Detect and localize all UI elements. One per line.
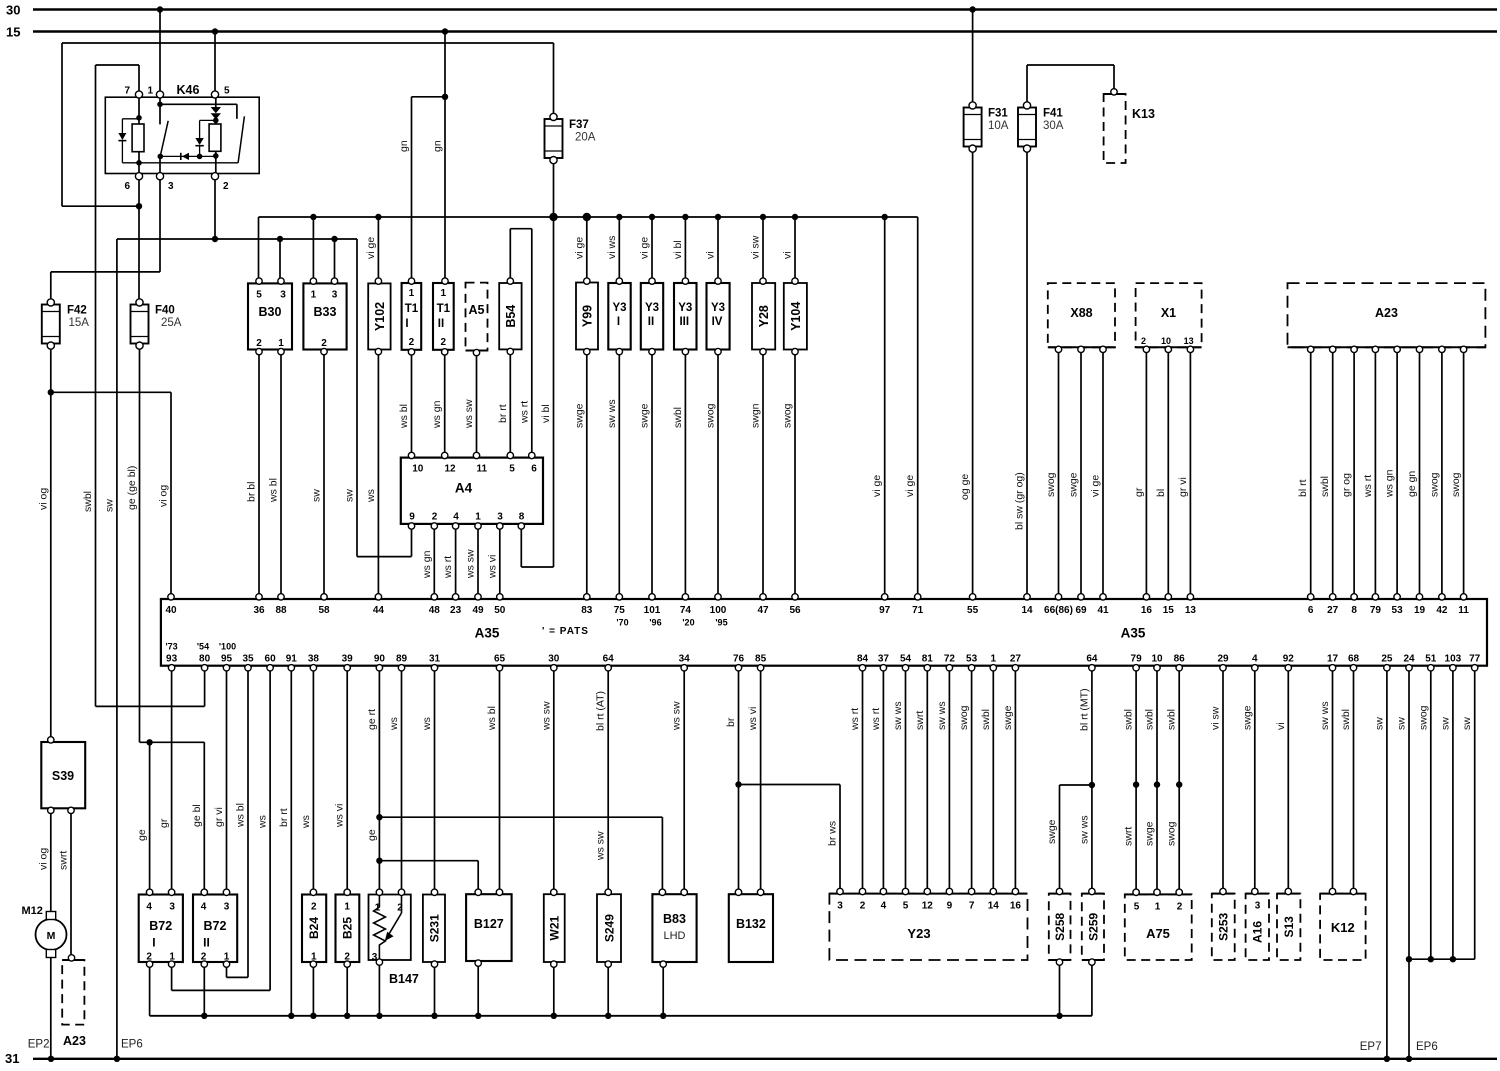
svg-text:bl rt (AT): bl rt (AT) bbox=[595, 691, 607, 731]
svg-text:vi ge: vi ge bbox=[904, 475, 916, 497]
svg-text:64: 64 bbox=[603, 654, 615, 665]
svg-text:15: 15 bbox=[1163, 605, 1175, 616]
svg-text:ge bl: ge bl bbox=[191, 804, 203, 827]
svg-text:swbl: swbl bbox=[1166, 709, 1178, 730]
svg-text:vi og: vi og bbox=[158, 485, 170, 507]
svg-text:swog: swog bbox=[1428, 472, 1440, 497]
svg-text:4: 4 bbox=[453, 512, 459, 523]
svg-text:95: 95 bbox=[221, 654, 233, 665]
svg-text:ge: ge bbox=[366, 829, 378, 841]
svg-text:F37: F37 bbox=[569, 119, 589, 131]
svg-text:swge: swge bbox=[1144, 821, 1156, 846]
svg-text:A4: A4 bbox=[455, 481, 473, 496]
svg-text:bl: bl bbox=[1155, 489, 1167, 497]
svg-text:'54: '54 bbox=[197, 642, 209, 652]
svg-text:6: 6 bbox=[1308, 605, 1314, 616]
svg-text:47: 47 bbox=[757, 605, 769, 616]
svg-text:72: 72 bbox=[944, 654, 956, 665]
svg-text:B54: B54 bbox=[504, 305, 518, 328]
svg-text:85: 85 bbox=[755, 654, 767, 665]
svg-text:K12: K12 bbox=[1331, 920, 1355, 935]
svg-text:2: 2 bbox=[256, 338, 262, 349]
svg-text:10: 10 bbox=[1151, 654, 1163, 665]
svg-text:gr og: gr og bbox=[1341, 473, 1353, 497]
svg-text:37: 37 bbox=[878, 654, 890, 665]
svg-text:X88: X88 bbox=[1070, 306, 1092, 320]
svg-text:B132: B132 bbox=[736, 917, 766, 931]
svg-text:2: 2 bbox=[860, 901, 866, 912]
svg-text:2: 2 bbox=[1177, 902, 1183, 913]
svg-text:vi ws: vi ws bbox=[606, 236, 618, 259]
svg-text:9: 9 bbox=[409, 512, 415, 523]
svg-text:15: 15 bbox=[6, 25, 20, 40]
svg-text:ws sw: ws sw bbox=[671, 701, 683, 731]
svg-text:50: 50 bbox=[494, 605, 506, 616]
svg-text:1: 1 bbox=[409, 288, 415, 299]
svg-text:EP6: EP6 bbox=[121, 1039, 143, 1051]
svg-text:vi: vi bbox=[705, 251, 717, 259]
svg-text:ws bl: ws bl bbox=[398, 404, 410, 429]
svg-text:3: 3 bbox=[837, 901, 843, 912]
svg-text:A35: A35 bbox=[1121, 626, 1146, 641]
svg-text:3: 3 bbox=[497, 512, 503, 523]
svg-text:swbl: swbl bbox=[672, 407, 684, 428]
svg-text:B72: B72 bbox=[204, 919, 227, 933]
svg-text:'73: '73 bbox=[166, 642, 178, 652]
svg-text:3: 3 bbox=[169, 902, 175, 913]
svg-text:B127: B127 bbox=[474, 917, 504, 931]
svg-text:br: br bbox=[725, 717, 737, 727]
svg-text:II: II bbox=[203, 936, 210, 950]
svg-text:40: 40 bbox=[165, 605, 177, 616]
svg-text:S249: S249 bbox=[602, 914, 616, 942]
svg-text:ws bl: ws bl bbox=[235, 803, 247, 828]
svg-text:1: 1 bbox=[1155, 902, 1161, 913]
svg-text:2: 2 bbox=[223, 181, 229, 192]
svg-text:91: 91 bbox=[286, 654, 298, 665]
svg-text:1: 1 bbox=[311, 290, 317, 301]
svg-text:77: 77 bbox=[1469, 654, 1481, 665]
svg-text:S253: S253 bbox=[1217, 912, 1231, 940]
svg-text:71: 71 bbox=[912, 605, 924, 616]
svg-text:13: 13 bbox=[1184, 336, 1194, 346]
svg-text:K13: K13 bbox=[1132, 107, 1155, 121]
svg-text:B33: B33 bbox=[314, 305, 337, 319]
svg-text:B72: B72 bbox=[149, 919, 172, 933]
svg-text:vi bl: vi bl bbox=[672, 240, 684, 259]
svg-text:Y104: Y104 bbox=[789, 302, 803, 331]
svg-text:41: 41 bbox=[1097, 605, 1109, 616]
svg-text:swge: swge bbox=[639, 403, 651, 428]
svg-text:swog: swog bbox=[1417, 705, 1429, 730]
svg-text:2: 2 bbox=[432, 512, 438, 523]
svg-text:75: 75 bbox=[614, 605, 626, 616]
svg-text:10: 10 bbox=[412, 464, 424, 475]
svg-text:swrt: swrt bbox=[914, 711, 926, 730]
svg-text:101: 101 bbox=[644, 605, 661, 616]
svg-text:5: 5 bbox=[509, 464, 515, 475]
svg-text:Y102: Y102 bbox=[373, 302, 387, 331]
svg-text:ws gn: ws gn bbox=[421, 550, 433, 579]
svg-text:2: 2 bbox=[397, 903, 403, 914]
svg-text:3: 3 bbox=[168, 181, 174, 192]
svg-text:'95: '95 bbox=[715, 618, 727, 628]
svg-text:30: 30 bbox=[6, 3, 20, 18]
svg-text:sw ws: sw ws bbox=[892, 701, 904, 730]
svg-text:swge: swge bbox=[1241, 705, 1253, 730]
svg-text:swrt: swrt bbox=[1123, 827, 1135, 846]
svg-text:ws gn: ws gn bbox=[1384, 469, 1396, 498]
svg-text:ws sw: ws sw bbox=[595, 831, 607, 861]
svg-text:ws: ws bbox=[257, 815, 269, 829]
svg-text:W21: W21 bbox=[548, 915, 562, 940]
svg-text:K46: K46 bbox=[177, 83, 200, 97]
svg-text:swge: swge bbox=[1046, 819, 1058, 844]
svg-text:S13: S13 bbox=[1282, 916, 1296, 938]
svg-text:2: 2 bbox=[321, 338, 327, 349]
svg-text:1: 1 bbox=[475, 512, 481, 523]
svg-text:sw: sw bbox=[311, 489, 323, 502]
svg-text:sw ws: sw ws bbox=[606, 399, 618, 428]
svg-text:sw ws: sw ws bbox=[1078, 815, 1090, 844]
svg-text:vi ge: vi ge bbox=[871, 475, 883, 497]
svg-text:swog: swog bbox=[1450, 472, 1462, 497]
svg-text:I: I bbox=[152, 936, 155, 950]
svg-text:S258: S258 bbox=[1053, 912, 1067, 940]
svg-text:F42: F42 bbox=[67, 305, 87, 317]
svg-text:vi: vi bbox=[782, 251, 794, 259]
svg-text:B147: B147 bbox=[389, 972, 419, 986]
svg-text:sw ws: sw ws bbox=[936, 701, 948, 730]
svg-text:swbl: swbl bbox=[1123, 709, 1135, 730]
svg-text:swbl: swbl bbox=[1144, 709, 1156, 730]
svg-text:5: 5 bbox=[1134, 902, 1140, 913]
svg-text:M12: M12 bbox=[22, 905, 43, 917]
svg-text:bl sw (gr og): bl sw (gr og) bbox=[1014, 472, 1026, 530]
svg-text:56: 56 bbox=[789, 605, 801, 616]
svg-text:sw: sw bbox=[1396, 717, 1408, 730]
svg-text:swge: swge bbox=[573, 403, 585, 428]
svg-text:27: 27 bbox=[1327, 605, 1339, 616]
svg-text:F31: F31 bbox=[988, 108, 1008, 120]
svg-text:86: 86 bbox=[1174, 654, 1186, 665]
svg-text:23: 23 bbox=[450, 605, 462, 616]
svg-text:gn: gn bbox=[432, 140, 444, 152]
svg-text:'20: '20 bbox=[682, 618, 694, 628]
svg-text:Y99: Y99 bbox=[580, 305, 594, 327]
svg-text:65: 65 bbox=[494, 654, 506, 665]
svg-text:sw: sw bbox=[1461, 717, 1473, 730]
svg-text:II: II bbox=[648, 316, 654, 328]
svg-text:3: 3 bbox=[280, 290, 286, 301]
svg-text:2: 2 bbox=[311, 902, 317, 913]
svg-text:90: 90 bbox=[374, 654, 386, 665]
svg-text:7: 7 bbox=[969, 901, 975, 912]
svg-text:84: 84 bbox=[857, 654, 869, 665]
svg-text:Y3: Y3 bbox=[645, 302, 659, 314]
svg-text:6: 6 bbox=[531, 464, 537, 475]
svg-text:Y28: Y28 bbox=[757, 305, 771, 327]
svg-text:vi sw: vi sw bbox=[1210, 706, 1222, 730]
svg-text:M: M bbox=[47, 930, 56, 942]
svg-text:'70: '70 bbox=[616, 618, 628, 628]
svg-text:gr vi: gr vi bbox=[1177, 477, 1189, 497]
svg-text:38: 38 bbox=[308, 654, 320, 665]
svg-text:swbl: swbl bbox=[1319, 476, 1331, 497]
svg-text:T1: T1 bbox=[405, 303, 419, 315]
svg-text:10A: 10A bbox=[988, 120, 1009, 132]
svg-text:31: 31 bbox=[429, 654, 441, 665]
svg-text:bl rt (MT): bl rt (MT) bbox=[1078, 688, 1090, 731]
svg-text:swge: swge bbox=[1002, 705, 1014, 730]
svg-text:sw: sw bbox=[1373, 717, 1385, 730]
svg-text:ws rt: ws rt bbox=[442, 556, 454, 579]
svg-text:30: 30 bbox=[548, 654, 560, 665]
svg-text:A23: A23 bbox=[1375, 306, 1398, 320]
svg-text:A16: A16 bbox=[1251, 921, 1265, 943]
svg-text:39: 39 bbox=[342, 654, 354, 665]
svg-text:2: 2 bbox=[1141, 336, 1146, 346]
svg-text:66(86): 66(86) bbox=[1044, 605, 1073, 616]
svg-text:A75: A75 bbox=[1146, 926, 1170, 941]
svg-text:X1: X1 bbox=[1161, 306, 1176, 320]
svg-text:ws rt: ws rt bbox=[1362, 475, 1374, 498]
svg-text:III: III bbox=[679, 316, 689, 328]
svg-text:93: 93 bbox=[166, 654, 178, 665]
svg-text:ws: ws bbox=[421, 717, 433, 731]
svg-text:'100: '100 bbox=[219, 642, 236, 652]
svg-text:EP6: EP6 bbox=[1416, 1041, 1438, 1053]
svg-text:1: 1 bbox=[147, 86, 153, 97]
svg-text:ws rt: ws rt bbox=[518, 401, 530, 424]
svg-text:ws bl: ws bl bbox=[486, 706, 498, 731]
svg-text:31: 31 bbox=[5, 1051, 19, 1066]
svg-text:'96: '96 bbox=[649, 618, 661, 628]
svg-text:ws: ws bbox=[388, 717, 400, 731]
svg-text:8: 8 bbox=[519, 512, 525, 523]
svg-text:T1: T1 bbox=[437, 303, 451, 315]
svg-text:swge: swge bbox=[1068, 472, 1080, 497]
svg-text:vi ge: vi ge bbox=[365, 237, 377, 259]
svg-text:ge (ge bl): ge (ge bl) bbox=[126, 466, 138, 510]
svg-text:29: 29 bbox=[1217, 654, 1229, 665]
svg-text:12: 12 bbox=[444, 464, 456, 475]
svg-text:3: 3 bbox=[224, 902, 230, 913]
svg-text:vi: vi bbox=[1275, 722, 1287, 730]
svg-text:10: 10 bbox=[1161, 336, 1171, 346]
svg-text:ws vi: ws vi bbox=[334, 804, 346, 828]
svg-text:B24: B24 bbox=[307, 917, 321, 939]
svg-text:1: 1 bbox=[441, 288, 447, 299]
svg-text:sw ws: sw ws bbox=[1319, 701, 1331, 730]
svg-text:79: 79 bbox=[1370, 605, 1382, 616]
svg-text:55: 55 bbox=[967, 605, 979, 616]
svg-text:bl rt: bl rt bbox=[1297, 479, 1309, 497]
svg-text:80: 80 bbox=[199, 654, 211, 665]
svg-text:LHD: LHD bbox=[663, 930, 685, 942]
svg-text:76: 76 bbox=[733, 654, 745, 665]
svg-text:4: 4 bbox=[146, 902, 152, 913]
svg-text:5: 5 bbox=[224, 86, 230, 97]
svg-text:1: 1 bbox=[991, 654, 997, 665]
svg-text:60: 60 bbox=[265, 654, 277, 665]
svg-text:br rt: br rt bbox=[497, 404, 509, 423]
svg-text:ws sw: ws sw bbox=[463, 399, 475, 429]
svg-text:81: 81 bbox=[922, 654, 934, 665]
svg-text:A35: A35 bbox=[475, 626, 500, 641]
svg-text:sw: sw bbox=[103, 499, 115, 512]
svg-text:35: 35 bbox=[242, 654, 254, 665]
svg-text:19: 19 bbox=[1414, 605, 1426, 616]
svg-text:97: 97 bbox=[879, 605, 891, 616]
svg-text:IV: IV bbox=[712, 316, 723, 328]
svg-text:EP7: EP7 bbox=[1360, 1041, 1382, 1053]
svg-text:Y3: Y3 bbox=[711, 302, 725, 314]
svg-text:vi ge: vi ge bbox=[1090, 475, 1102, 497]
svg-text:25: 25 bbox=[1381, 654, 1393, 665]
svg-text:F40: F40 bbox=[155, 305, 175, 317]
svg-text:2: 2 bbox=[441, 337, 447, 348]
svg-text:53: 53 bbox=[1392, 605, 1404, 616]
svg-text:ge rt: ge rt bbox=[366, 709, 378, 730]
svg-text:9: 9 bbox=[947, 901, 953, 912]
svg-text:ws bl: ws bl bbox=[268, 478, 280, 503]
svg-text:69: 69 bbox=[1075, 605, 1087, 616]
svg-text:sw: sw bbox=[344, 489, 356, 502]
svg-text:ws rt: ws rt bbox=[870, 708, 882, 731]
svg-text:swog: swog bbox=[705, 403, 717, 428]
svg-text:Y3: Y3 bbox=[678, 302, 692, 314]
svg-text:br bl: br bl bbox=[246, 482, 258, 502]
svg-text:S39: S39 bbox=[52, 769, 74, 783]
svg-text:8: 8 bbox=[1351, 605, 1357, 616]
svg-text:11: 11 bbox=[477, 464, 488, 475]
svg-text:EP2: EP2 bbox=[28, 1039, 50, 1051]
svg-text:83: 83 bbox=[581, 605, 593, 616]
svg-text:42: 42 bbox=[1436, 605, 1448, 616]
svg-text:14: 14 bbox=[988, 901, 1000, 912]
svg-text:swog: swog bbox=[958, 705, 970, 730]
svg-text:27: 27 bbox=[1010, 654, 1022, 665]
svg-text:swog: swog bbox=[1166, 821, 1178, 846]
svg-text:100: 100 bbox=[710, 605, 727, 616]
svg-text:16: 16 bbox=[1010, 901, 1022, 912]
svg-text:vi sw: vi sw bbox=[750, 235, 762, 259]
svg-text:ws vi: ws vi bbox=[747, 707, 759, 731]
svg-text:Y23: Y23 bbox=[907, 926, 930, 941]
svg-text:ws rt: ws rt bbox=[849, 708, 861, 731]
svg-text:2: 2 bbox=[409, 337, 415, 348]
svg-text:1: 1 bbox=[278, 338, 284, 349]
svg-text:11: 11 bbox=[1458, 605, 1469, 616]
svg-text:ws gn: ws gn bbox=[431, 400, 443, 429]
svg-text:swbl: swbl bbox=[980, 709, 992, 730]
svg-text:ws vi: ws vi bbox=[486, 555, 498, 579]
svg-text:44: 44 bbox=[373, 605, 385, 616]
svg-text:ge: ge bbox=[136, 829, 148, 841]
svg-text:vi ge: vi ge bbox=[639, 237, 651, 259]
svg-text:34: 34 bbox=[679, 654, 691, 665]
svg-text:gr vi: gr vi bbox=[213, 807, 225, 827]
svg-text:swbl: swbl bbox=[82, 491, 94, 512]
svg-text:5: 5 bbox=[903, 901, 909, 912]
svg-text:Y3: Y3 bbox=[612, 302, 626, 314]
svg-text:gn: gn bbox=[398, 140, 410, 152]
svg-text:vi bl: vi bl bbox=[540, 404, 552, 423]
svg-text:S231: S231 bbox=[427, 914, 441, 942]
svg-text:B25: B25 bbox=[341, 917, 355, 939]
svg-text:I: I bbox=[405, 318, 408, 330]
svg-text:og ge: og ge bbox=[959, 474, 971, 500]
svg-text:ws: ws bbox=[300, 815, 312, 829]
svg-text:II: II bbox=[438, 318, 444, 330]
svg-text:92: 92 bbox=[1283, 654, 1295, 665]
svg-text:103: 103 bbox=[1445, 654, 1462, 665]
svg-text:89: 89 bbox=[396, 654, 408, 665]
svg-text:vi og: vi og bbox=[37, 848, 49, 870]
svg-text:88: 88 bbox=[275, 605, 287, 616]
svg-text:ge gn: ge gn bbox=[1406, 471, 1418, 497]
svg-text:54: 54 bbox=[900, 654, 912, 665]
svg-text:7: 7 bbox=[124, 86, 130, 97]
svg-text:58: 58 bbox=[318, 605, 330, 616]
svg-text:swog: swog bbox=[1045, 472, 1057, 497]
svg-text:51: 51 bbox=[1425, 654, 1437, 665]
svg-text:ws sw: ws sw bbox=[540, 701, 552, 731]
svg-text:17: 17 bbox=[1327, 654, 1339, 665]
svg-text:swrt: swrt bbox=[58, 851, 70, 870]
svg-text:3: 3 bbox=[332, 290, 338, 301]
svg-text:sw: sw bbox=[1439, 717, 1451, 730]
svg-text:ws sw: ws sw bbox=[465, 549, 477, 579]
svg-text:64: 64 bbox=[1086, 654, 1098, 665]
svg-text:79: 79 bbox=[1131, 654, 1143, 665]
svg-text:vi og: vi og bbox=[37, 488, 49, 510]
svg-text:49: 49 bbox=[472, 605, 484, 616]
svg-text:6: 6 bbox=[124, 181, 130, 192]
svg-text:15A: 15A bbox=[69, 317, 90, 329]
svg-text:F41: F41 bbox=[1043, 108, 1063, 120]
svg-text:swbl: swbl bbox=[1340, 709, 1352, 730]
svg-text:4: 4 bbox=[201, 902, 207, 913]
svg-text:4: 4 bbox=[1252, 654, 1258, 665]
svg-text:S259: S259 bbox=[1086, 912, 1100, 940]
svg-text:ws: ws bbox=[365, 489, 377, 503]
svg-text:3: 3 bbox=[1255, 901, 1261, 912]
svg-text:B83: B83 bbox=[663, 912, 686, 926]
svg-text:A23: A23 bbox=[63, 1034, 86, 1048]
svg-text:5: 5 bbox=[256, 290, 262, 301]
svg-text:swgn: swgn bbox=[750, 403, 762, 428]
svg-text:gr: gr bbox=[158, 818, 170, 828]
svg-text:30A: 30A bbox=[1043, 120, 1064, 132]
svg-text:gr: gr bbox=[1133, 487, 1145, 497]
svg-text:68: 68 bbox=[1348, 654, 1360, 665]
svg-text:48: 48 bbox=[429, 605, 441, 616]
svg-text:16: 16 bbox=[1141, 605, 1153, 616]
svg-text:25A: 25A bbox=[161, 317, 182, 329]
svg-text:swog: swog bbox=[782, 403, 794, 428]
svg-text:13: 13 bbox=[1185, 605, 1197, 616]
svg-text:1: 1 bbox=[344, 902, 350, 913]
svg-text:br rt: br rt bbox=[278, 808, 290, 827]
svg-text:vi ge: vi ge bbox=[573, 237, 585, 259]
svg-text:4: 4 bbox=[881, 901, 887, 912]
svg-text:B30: B30 bbox=[259, 305, 282, 319]
svg-text:' = PATS: ' = PATS bbox=[542, 626, 589, 637]
svg-text:A5: A5 bbox=[469, 303, 485, 317]
svg-text:20A: 20A bbox=[575, 132, 596, 144]
